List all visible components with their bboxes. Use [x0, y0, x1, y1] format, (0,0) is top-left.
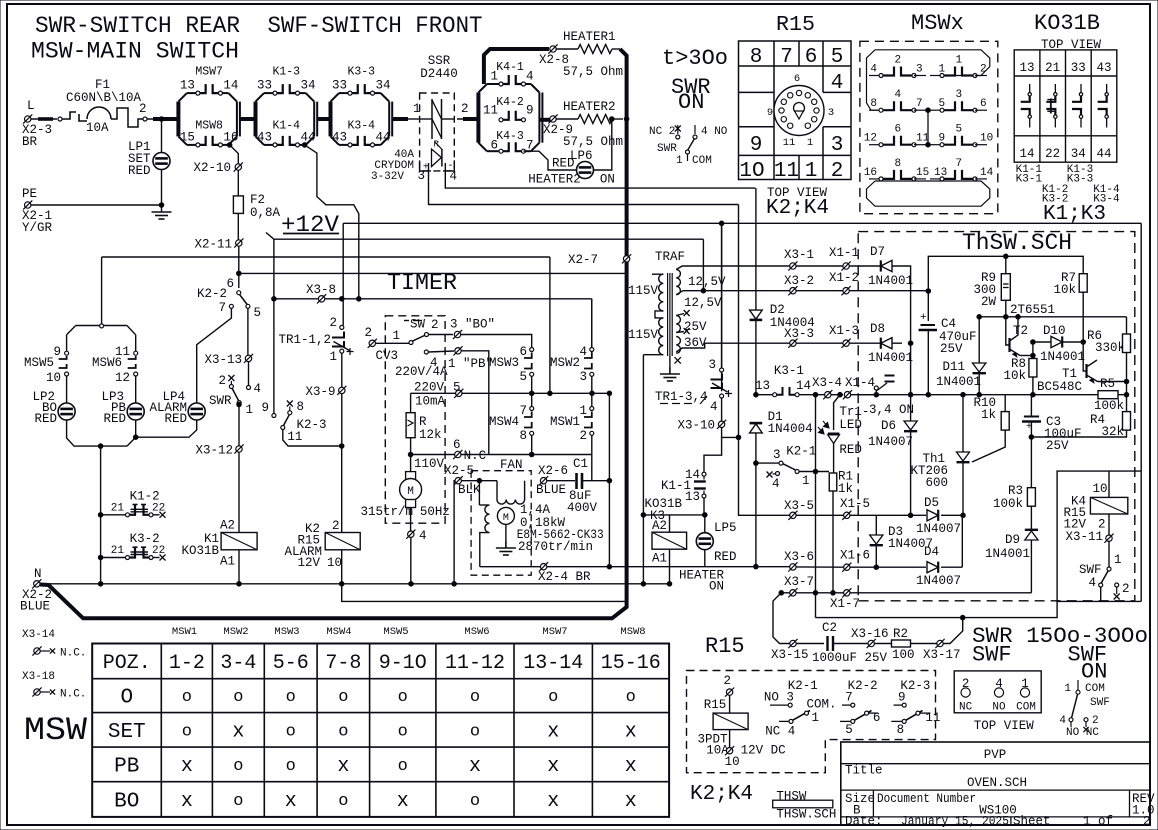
timer 220V terminal 5: [414, 381, 463, 409]
wire +12V vertical: [272, 239, 277, 413]
wire X2-5 to N rail: [453, 481, 456, 584]
svg-text:ThSW.SCH: ThSW.SCH: [962, 230, 1072, 256]
terminal X3-3 X1-3: [784, 324, 876, 348]
svg-text:x: x: [547, 790, 559, 813]
terminal X2-9: [543, 100, 623, 149]
svg-text:Title: Title: [845, 764, 883, 778]
svg-text:57,5 Ohm: 57,5 Ohm: [563, 135, 623, 149]
svg-text:4: 4: [526, 70, 534, 84]
svg-text:HEATER1: HEATER1: [563, 30, 616, 44]
svg-text:10: 10: [46, 371, 61, 385]
svg-text:Y/GR: Y/GR: [22, 221, 53, 235]
wire TR1 line y222: [343, 221, 1141, 226]
svg-text:MSW4: MSW4: [326, 626, 351, 638]
svg-text:22: 22: [152, 545, 165, 557]
svg-text:1N4004: 1N4004: [768, 422, 813, 436]
svg-text:10mA: 10mA: [415, 395, 446, 409]
resistor R2 100: [892, 627, 937, 662]
contact K2-1 bottom: [764, 679, 837, 739]
svg-text:K3-1: K3-1: [1016, 174, 1043, 186]
svg-text:D2: D2: [770, 303, 785, 317]
svg-text:1: 1: [1114, 553, 1122, 567]
MSW table header labels: [172, 626, 646, 638]
svg-text:Document Number: Document Number: [877, 792, 976, 806]
svg-text:Sheet: Sheet: [1013, 815, 1051, 829]
svg-text:10: 10: [725, 755, 740, 769]
switch K4-2: [483, 96, 534, 122]
svg-text:44: 44: [301, 130, 316, 144]
svg-text:R: R: [419, 415, 427, 429]
svg-text:11: 11: [287, 430, 302, 444]
wire node 2 to MSW7 block: [147, 117, 178, 122]
svg-text:1,4A: 1,4A: [520, 503, 551, 517]
svg-text:600: 600: [925, 476, 948, 490]
wire line y204 down to junction: [738, 205, 740, 438]
svg-text:o: o: [338, 722, 348, 741]
svg-text:4: 4: [894, 89, 901, 101]
wire D5 to D4 link: [961, 515, 963, 567]
svg-text:R5: R5: [1100, 377, 1115, 391]
label SWR ON: [671, 75, 711, 115]
wire X2-5 into fan: [461, 478, 497, 483]
wire NC to C1 line: [591, 455, 593, 481]
svg-text:L: L: [27, 99, 35, 113]
svg-text:3-32V: 3-32V: [371, 171, 404, 183]
svg-text:MSW6: MSW6: [464, 626, 489, 638]
svg-text:1N4007: 1N4007: [868, 435, 913, 449]
svg-text:X2-5: X2-5: [444, 464, 474, 478]
svg-text:1: 1: [805, 160, 818, 183]
svg-text:10A: 10A: [86, 121, 109, 135]
svg-text:2: 2: [332, 519, 340, 533]
terminal X3-14 NC: [22, 629, 86, 660]
rotary switch R15 top view table: [739, 14, 852, 183]
switch SWF 1 4 2: [1079, 553, 1130, 601]
svg-text:SSR: SSR: [428, 54, 451, 68]
terminal X3-16: [851, 627, 891, 648]
svg-text:8: 8: [897, 723, 905, 737]
svg-text:220V: 220V: [414, 381, 445, 395]
contact K1-2 21 22: [98, 490, 165, 518]
svg-text:X1-2: X1-2: [829, 271, 859, 285]
svg-text:N.C.: N.C.: [60, 648, 86, 660]
terminal 4 timer motor: [406, 529, 426, 584]
svg-text:4: 4: [419, 529, 427, 543]
lamp LP3 PB RED: [101, 376, 144, 426]
terminal X3-13: [204, 353, 253, 367]
wire loop to K1-2: [100, 446, 102, 584]
svg-text:43: 43: [257, 130, 272, 144]
svg-text:MSW2: MSW2: [223, 626, 248, 638]
svg-text:8: 8: [870, 98, 877, 110]
contact K1-1 14 13: [661, 468, 707, 517]
svg-text:X3-17: X3-17: [923, 648, 961, 662]
svg-text:6: 6: [873, 711, 881, 725]
svg-text:N: N: [34, 567, 42, 581]
svg-text:O: O: [120, 687, 133, 710]
svg-text:6: 6: [226, 277, 234, 291]
svg-text:HEATER2: HEATER2: [563, 100, 616, 114]
contact K1-1 block wire: [704, 437, 722, 471]
svg-text:2: 2: [1143, 815, 1151, 829]
R15 relay dashed box: [687, 671, 936, 773]
diode D5 1N4007: [911, 496, 963, 536]
svg-text:4: 4: [579, 345, 587, 359]
svg-text:PE: PE: [22, 187, 37, 201]
svg-text:1: 1: [812, 711, 820, 725]
svg-text:8: 8: [519, 429, 527, 443]
contact K2-3 bottom: [891, 679, 940, 737]
svg-text:21: 21: [1045, 61, 1060, 75]
svg-text:13: 13: [755, 379, 770, 393]
switch K4-1: [490, 61, 533, 86]
relay contact block KO31B top view: [1014, 11, 1117, 162]
wire +12V drop to X3-2 line: [701, 239, 706, 293]
svg-text:SWF: SWF: [1079, 563, 1102, 577]
svg-text:K1-4: K1-4: [272, 120, 300, 133]
svg-text:D4: D4: [924, 545, 939, 559]
diode D10 1N4001: [1031, 324, 1086, 364]
svg-text:14: 14: [223, 79, 238, 93]
terminal X3-10: [677, 419, 740, 440]
resistor R10 1k: [972, 395, 1009, 462]
svg-text:115V: 115V: [628, 284, 659, 298]
MSWx top housing outline: [875, 50, 990, 76]
svg-text:1N4001: 1N4001: [1040, 350, 1085, 364]
switch K2-1 contact 3 1 4: [754, 445, 829, 492]
svg-text:1N4001: 1N4001: [936, 375, 981, 389]
wire lamp loop top: [67, 257, 136, 335]
switch K4-3: [490, 130, 533, 153]
svg-text:A2: A2: [652, 519, 667, 533]
switch K3-3: [332, 66, 391, 96]
switch block outline: [331, 93, 393, 145]
resistor R6 330k: [1087, 317, 1131, 395]
svg-text:10: 10: [980, 133, 993, 145]
svg-text:R3: R3: [1008, 484, 1023, 498]
wire K1-4 to X3-8 line: [302, 143, 361, 302]
svg-text:MSW5: MSW5: [24, 356, 54, 370]
svg-text:1000uF 25V: 1000uF 25V: [812, 651, 888, 665]
switch MSW4: [489, 393, 534, 454]
svg-text:16: 16: [864, 167, 877, 179]
switch SWF detail bottom right: [1059, 680, 1109, 739]
svg-text:3: 3: [916, 64, 923, 76]
svg-text:K1;K3: K1;K3: [1043, 203, 1106, 226]
svg-text:SET: SET: [108, 721, 146, 744]
svg-text:7-8: 7-8: [325, 652, 361, 675]
svg-text:SWR: SWR: [209, 394, 232, 408]
wire tap 36V to X3-3 line: [676, 343, 790, 352]
svg-text:12: 12: [115, 371, 130, 385]
terminal 3 BO: [450, 318, 495, 340]
svg-text:X3-9: X3-9: [305, 385, 335, 399]
svg-text:NC 4: NC 4: [765, 725, 795, 739]
svg-text:43: 43: [1096, 61, 1111, 75]
svg-text:115V: 115V: [628, 328, 659, 342]
terminal X2-10: [193, 161, 242, 175]
svg-text:X1-6: X1-6: [840, 549, 870, 563]
resistor R9 300 2W: [973, 256, 1010, 317]
svg-text:16: 16: [223, 130, 238, 144]
svg-text:X3-2: X3-2: [784, 274, 814, 288]
MSWx switch row pins 4 3 1 2: [869, 55, 987, 78]
lamp LP6 HEATER2 ON: [528, 149, 615, 187]
terminal PE X2-1: [22, 187, 53, 235]
svg-text:1N4001: 1N4001: [985, 547, 1030, 561]
svg-text:o: o: [233, 688, 243, 707]
bottom rail ThSW with R5: [858, 392, 1098, 397]
svg-text:NO 3: NO 3: [764, 691, 794, 705]
svg-text:44: 44: [1096, 147, 1111, 161]
ground symbol fan: [505, 541, 507, 548]
svg-text:10k: 10k: [1053, 283, 1076, 297]
svg-text:2: 2: [831, 160, 844, 183]
svg-text:x: x: [625, 720, 637, 743]
svg-text:3: 3: [579, 370, 587, 384]
terminal X3-18 NC: [22, 671, 86, 701]
svg-text:11: 11: [483, 104, 498, 118]
svg-text:o: o: [470, 688, 480, 707]
resistor R4 32k: [1031, 395, 1130, 439]
svg-text:1: 1: [246, 403, 254, 417]
svg-text:X1-4: X1-4: [845, 376, 875, 390]
svg-text:x: x: [181, 790, 193, 813]
title block Title OVEN.SCH: [845, 764, 1027, 791]
wire main line K3 block to SSR pin 1: [392, 102, 420, 119]
svg-text:14: 14: [980, 167, 994, 179]
wire F2 to X2-11: [237, 213, 239, 239]
terminal X3-12: [195, 444, 243, 458]
wire SWF feed line: [816, 601, 1058, 617]
capacitor C1 8uF 400V: [567, 457, 609, 515]
wire X3-12 to relay K1: [238, 452, 240, 532]
lamp LP1 SET RED: [128, 140, 170, 178]
switch SWR NC NO COM: [649, 125, 728, 167]
svg-text:MSW8: MSW8: [195, 120, 223, 133]
svg-text:2: 2: [329, 316, 337, 330]
svg-text:8: 8: [894, 158, 901, 170]
svg-text:MSW1: MSW1: [550, 415, 580, 429]
svg-text:5: 5: [254, 306, 262, 320]
svg-text:R15: R15: [705, 634, 745, 659]
switch MSW5: [24, 335, 69, 385]
svg-text:7: 7: [916, 98, 923, 110]
svg-text:4 NO: 4 NO: [701, 126, 728, 138]
svg-text:RED: RED: [34, 412, 57, 426]
relay K3 KO31B: [644, 497, 686, 584]
wire K2-3 to relay K2: [339, 444, 344, 533]
wire K4 right to X2-9: [539, 118, 550, 122]
switch K2-2 contacts 6 5 7: [197, 277, 261, 320]
title block size row: [845, 792, 1155, 818]
svg-text:33: 33: [257, 79, 272, 93]
wire D7 branch vertical: [902, 266, 913, 395]
wire secondary tap 12.5V top: [676, 266, 790, 289]
svg-text:K3-3: K3-3: [1067, 174, 1093, 186]
svg-text:13: 13: [1019, 61, 1034, 75]
wire X3-13 to contact 4: [248, 362, 250, 386]
title block frame: [841, 742, 1150, 825]
svg-text:3-4: 3-4: [220, 652, 256, 675]
svg-text:NC 2: NC 2: [649, 126, 675, 138]
ThSW.SCH dashed box: [858, 232, 1135, 601]
resistor R7 10k: [1053, 271, 1087, 342]
svg-text:o: o: [470, 792, 480, 811]
contact K3-1 13 14: [754, 364, 825, 397]
svg-text:N.C: N.C: [464, 449, 487, 463]
fan motor M: [497, 507, 514, 548]
wire X3-6 line: [609, 566, 789, 568]
fan labels: [517, 503, 604, 554]
rotary socket circle R15: [767, 73, 834, 149]
svg-text:110V: 110V: [414, 457, 445, 471]
svg-text:1: 1: [329, 350, 337, 364]
x mark secondary bottom: [675, 357, 681, 363]
svg-text:BR: BR: [22, 135, 38, 149]
svg-text:TOP VIEW: TOP VIEW: [974, 719, 1035, 733]
svg-text:Date:: Date:: [845, 815, 883, 829]
svg-text:X1-5: X1-5: [840, 497, 870, 511]
label TOP VIEW K2 K4: [766, 186, 829, 220]
svg-text:MSW: MSW: [24, 712, 88, 749]
wire secondary tap 36V: [676, 328, 707, 350]
svg-text:x: x: [625, 790, 637, 813]
svg-text:MSW3: MSW3: [274, 626, 299, 638]
svg-text:A1: A1: [220, 555, 235, 569]
svg-text:SWF-SWITCH FRONT: SWF-SWITCH FRONT: [268, 13, 483, 39]
terminal X3-4 X1-4: [812, 376, 876, 399]
label SWF ON right: [1068, 643, 1108, 685]
R15 socket top view box: [954, 671, 1041, 714]
svg-text:6: 6: [794, 73, 800, 85]
svg-text:3: 3: [708, 358, 716, 372]
svg-text:MSW5: MSW5: [383, 626, 408, 638]
switch SWR contacts 2 4 1: [209, 374, 261, 417]
svg-text:12V: 12V: [297, 556, 320, 570]
svg-text:x: x: [625, 755, 637, 778]
switch K1-4: [257, 120, 316, 147]
svg-text:6: 6: [805, 46, 818, 69]
svg-text:43: 43: [332, 130, 347, 144]
svg-text:BC548C: BC548C: [1037, 380, 1082, 394]
svg-text:THSW.SCH: THSW.SCH: [776, 808, 836, 822]
svg-text:D10: D10: [1043, 324, 1066, 338]
wire top rail ThSW: [928, 254, 1083, 321]
svg-text:1: 1: [676, 155, 683, 167]
svg-text:12V DC: 12V DC: [741, 744, 786, 758]
svg-text:1k: 1k: [981, 408, 996, 422]
svg-text:K3-2: K3-2: [130, 532, 160, 546]
svg-text:MSW6: MSW6: [92, 356, 122, 370]
svg-text:15: 15: [180, 130, 195, 144]
svg-text:LP5: LP5: [714, 521, 737, 535]
resistor R5 100k: [1094, 377, 1129, 413]
thermal switch TR1-3,4 body: [655, 223, 732, 420]
svg-text:4: 4: [870, 64, 877, 76]
svg-text:K1-2: K1-2: [130, 490, 160, 504]
wire +12V rail: [274, 238, 704, 240]
svg-text:ON: ON: [678, 90, 704, 115]
svg-text:COM: COM: [1016, 702, 1036, 714]
svg-text:HEATER2: HEATER2: [528, 173, 581, 187]
svg-text:1N4007: 1N4007: [916, 522, 961, 536]
LED Tr1 RED: [818, 395, 869, 473]
wire main line K1 to K3 block: [317, 117, 330, 121]
svg-text:2: 2: [894, 55, 901, 67]
svg-text:220V/4A: 220V/4A: [395, 365, 448, 379]
terminal X3-9: [305, 385, 346, 446]
svg-text:22: 22: [152, 503, 165, 515]
svg-text:x: x: [547, 755, 559, 778]
svg-text:BLUE: BLUE: [536, 483, 566, 497]
wire PB to NC line: [461, 351, 489, 455]
diode D9 1N4001: [985, 530, 1038, 593]
svg-text:2: 2: [980, 64, 987, 76]
svg-text:X3-7: X3-7: [784, 575, 814, 589]
transistor T1 BC548C: [1037, 342, 1129, 394]
svg-text:11: 11: [783, 137, 796, 149]
svg-text:33: 33: [332, 79, 347, 93]
svg-text:R15: R15: [776, 14, 815, 37]
capacitor C4 470uF 25V: [919, 312, 977, 395]
switch MSW2: [550, 299, 594, 394]
svg-text:K2-1: K2-1: [786, 445, 816, 459]
svg-text:X3-15: X3-15: [771, 648, 809, 662]
svg-text:7: 7: [519, 404, 527, 418]
wire MSW8 pin16 to X2-10: [227, 143, 238, 164]
svg-text:1N4004: 1N4004: [770, 316, 815, 330]
svg-text:K3-3: K3-3: [347, 66, 375, 79]
svg-text:100: 100: [892, 648, 915, 662]
switch K3-4: [332, 120, 391, 147]
svg-text:13: 13: [685, 490, 700, 504]
svg-text:x: x: [232, 720, 244, 743]
svg-text:MSWx: MSWx: [911, 11, 964, 36]
switch K2-3 contacts 8 11: [281, 400, 342, 446]
svg-text:X3-11: X3-11: [1065, 530, 1103, 544]
svg-text:x: x: [337, 755, 349, 778]
svg-text:13-14: 13-14: [523, 652, 583, 675]
svg-text:X3-13: X3-13: [204, 353, 242, 367]
svg-text:X3-16: X3-16: [851, 627, 889, 641]
svg-text:50Hz: 50Hz: [420, 505, 450, 519]
capacitor C2 1000uF 25V: [812, 621, 888, 665]
svg-text:SWF: SWF: [972, 643, 1012, 668]
svg-text:3: 3: [831, 134, 844, 157]
heater resistor HEATER2: [557, 115, 624, 124]
MSWx switch row pins 12 11 9 10: [864, 124, 993, 147]
svg-text:25V: 25V: [1046, 439, 1069, 453]
svg-text:RED: RED: [128, 164, 151, 178]
wire lamp loop feeder y257: [102, 256, 550, 258]
svg-text:21: 21: [111, 503, 125, 515]
svg-text:5: 5: [845, 723, 853, 737]
svg-text:2: 2: [139, 102, 147, 116]
svg-text:1N4001: 1N4001: [868, 274, 913, 288]
svg-text:D8: D8: [870, 322, 885, 336]
svg-text:9: 9: [898, 691, 906, 705]
resistor R3 100k: [993, 484, 1035, 531]
diode D4 1N4007: [876, 545, 962, 588]
svg-text:100k: 100k: [1094, 399, 1124, 413]
label +12V: [266, 212, 339, 239]
lamp LP2 BO RED: [32, 376, 75, 426]
wire X3-8 drop to MSW2: [591, 299, 593, 354]
wire X3-5 line: [739, 437, 790, 515]
svg-text:100k: 100k: [993, 497, 1023, 511]
svg-text:7: 7: [526, 139, 534, 153]
